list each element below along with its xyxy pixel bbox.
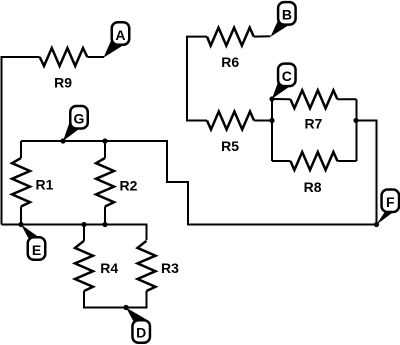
wire R5 to C junction: [254, 120, 272, 122]
junction dot R4 top: [81, 222, 86, 227]
wire F riser: [356, 121, 377, 225]
wire R1 top lead: [20, 141, 22, 158]
resistor R7: [290, 90, 337, 108]
wire R2 top lead: [104, 141, 106, 158]
node E label box: [28, 237, 46, 260]
node D junction dot: [123, 305, 128, 310]
node F label box: [382, 190, 400, 213]
junction dot right vertical: [353, 118, 358, 123]
node G label box: [70, 106, 88, 129]
node C pointer tail: [272, 83, 289, 99]
node F junction dot: [374, 222, 379, 227]
svg-text:G: G: [74, 110, 85, 126]
resistor R6: [207, 28, 254, 46]
wire node G rail and staircase to F rail: [21, 141, 377, 225]
wire R9 to node A: [87, 56, 104, 58]
wire left vertical and R9 lead: [2, 57, 40, 225]
resistor R1: [12, 158, 30, 207]
node C label box: [278, 64, 296, 87]
resistor R9: [40, 48, 88, 66]
svg-text:R5: R5: [221, 138, 239, 154]
junction dot R2 top: [102, 138, 107, 143]
svg-text:B: B: [282, 7, 292, 23]
wire bottom-left rail to R3: [2, 225, 147, 241]
node B pointer tail: [271, 22, 289, 37]
node F pointer tail: [377, 211, 393, 225]
node C junction dot: [269, 96, 274, 101]
svg-text:R1: R1: [36, 176, 54, 192]
svg-text:D: D: [136, 325, 146, 341]
resistor R2: [96, 158, 114, 207]
resistor R5: [207, 112, 254, 130]
svg-text:F: F: [386, 194, 395, 210]
wire R6 left down to R5: [187, 37, 207, 121]
node G junction dot: [60, 138, 65, 143]
junction dot R2 bottom: [102, 222, 107, 227]
svg-text:R7: R7: [304, 116, 322, 132]
wire R4 top lead: [83, 225, 85, 241]
junction dot R5 right: [269, 118, 274, 123]
node B label box: [278, 2, 296, 25]
wire R3 bottom to R4 bottom: [84, 291, 147, 308]
node E pointer tail: [21, 225, 38, 241]
svg-text:R2: R2: [120, 177, 138, 193]
node D label box: [132, 320, 150, 343]
wire R6 to node B: [254, 35, 271, 37]
svg-text:R9: R9: [54, 75, 72, 91]
node A pointer tail: [104, 41, 123, 58]
svg-text:R8: R8: [304, 179, 322, 195]
resistor R4: [75, 241, 93, 291]
wire C vertical junction: [271, 99, 273, 161]
svg-text:E: E: [32, 242, 41, 258]
resistor R8: [290, 152, 337, 170]
svg-text:A: A: [115, 27, 125, 43]
node G pointer tail: [63, 123, 80, 142]
wire R7 leads: [272, 98, 290, 100]
svg-text:R6: R6: [221, 54, 239, 70]
wire R8 leads: [272, 160, 290, 162]
node E junction dot: [18, 222, 23, 227]
svg-text:R4: R4: [100, 260, 118, 276]
wire right vertical R7/R8: [356, 99, 358, 161]
node A label box: [112, 22, 130, 45]
wire R2 bottom lead: [104, 207, 106, 225]
svg-text:R3: R3: [161, 260, 179, 276]
svg-text:C: C: [282, 68, 292, 84]
resistor R3: [138, 241, 156, 291]
node D pointer tail: [126, 308, 146, 324]
wire R1 bottom lead: [20, 207, 22, 225]
